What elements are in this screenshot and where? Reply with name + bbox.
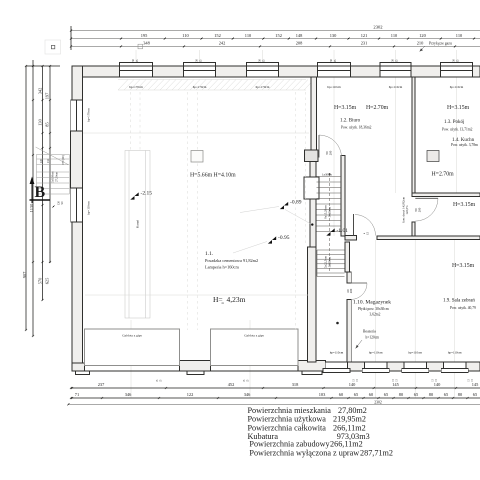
flag -0.89 [284,202,288,206]
kuchnia column [427,151,439,162]
svg-text:150: 150 [453,58,456,63]
svg-text:170 (90): 170 (90) [62,155,65,165]
ticks [67,387,468,406]
svg-text:2302: 2302 [373,25,383,30]
svg-text:Gablota z gips: Gablota z gips [244,334,264,338]
magazynek east wall [345,242,350,272]
axis marker square [45,40,61,54]
svg-text:287,71m2: 287,71m2 [360,449,393,458]
row B numbers [75,392,478,397]
hp labels bottom windows [330,351,462,355]
pokoj south wall [412,193,480,197]
svg-text:208: 208 [296,41,303,46]
faint centerline grid [131,50,457,398]
jamb bump / door sill [345,236,357,241]
top wall windows [120,63,473,78]
svg-text:H=3.15m: H=3.15m [334,105,357,111]
svg-text:210: 210 [417,41,424,46]
row A numbers [98,382,479,387]
stair east wall [341,156,345,237]
svg-text:197: 197 [45,92,50,99]
svg-text:200: 200 [329,150,333,155]
svg-text:346: 346 [125,392,132,397]
svg-text:242: 242 [219,41,226,46]
chimney duct [304,177,319,199]
svg-text:hp=110cm: hp=110cm [408,351,422,355]
svg-text:H=3.15m: H=3.15m [452,263,475,269]
svg-text:-0.89: -0.89 [290,200,302,206]
svg-text:130: 130 [38,118,43,125]
ticks row1 [70,30,475,48]
svg-text:1.10. Magazynek: 1.10. Magazynek [353,300,391,306]
left wall window/door stack [71,100,83,222]
column grid dashed projection lines [131,92,306,330]
svg-text:110: 110 [456,33,463,38]
column at corridor [305,150,319,162]
svg-text:Boazeria: Boazeria [363,330,376,334]
svg-text:120: 120 [419,33,426,38]
svg-text:H=2.70m: H=2.70m [432,172,455,178]
svg-text:237: 237 [98,382,105,387]
svg-text:346: 346 [244,392,251,397]
door swings [319,135,438,299]
svg-text:150: 150 [392,58,395,63]
flag -0.95 [272,236,276,240]
svg-text:hp=110cm: hp=110cm [450,85,464,89]
svg-text:-1.01: -1.01 [337,228,349,234]
upper flight steps [317,176,342,178]
stair annotations [322,150,422,293]
svg-text:110: 110 [245,33,252,38]
svg-text:625: 625 [45,277,50,284]
door jamb stub [412,222,415,240]
svg-text:907: 907 [22,271,27,278]
top dimension rows [70,25,480,52]
svg-text:130: 130 [330,33,337,38]
window size marks above top windows [132,58,460,63]
svg-text:148: 148 [296,33,303,38]
svg-text:122: 122 [187,392,194,397]
svg-text:110: 110 [391,33,398,38]
svg-text:150: 150 [259,58,262,63]
bottom sill bumps [76,371,90,375]
svg-text:hp=170cm: hp=170cm [256,85,270,89]
svg-text:Powierzchnia mieszkania: Powierzchnia mieszkania [248,406,332,415]
walk line [329,173,331,273]
top wall piers [72,66,120,77]
svg-text:hp=110cm: hp=110cm [389,85,403,89]
svg-text:H=5.66m H=4.10m: H=5.66m H=4.10m [190,173,236,179]
svg-text:hp=110cm: hp=110cm [369,351,383,355]
left wall size marks [62,155,65,165]
bottom wall band [72,365,480,372]
svg-text:2302: 2302 [374,401,382,405]
svg-text:Kanał: Kanał [136,220,140,228]
svg-text:Powierzchnia użytkowa: Powierzchnia użytkowa [248,415,327,424]
svg-text:B: B [35,184,46,201]
hp labels top windows [87,85,464,215]
row 2 numbers [143,41,424,46]
level flags [130,191,348,253]
svg-text:4,23m: 4,23m [227,295,246,304]
bottom area table [248,406,393,458]
svg-text:103: 103 [319,392,326,397]
svg-text:195: 195 [141,33,148,38]
svg-text:15: 15 [366,232,370,236]
svg-text:121: 121 [361,33,368,38]
svg-text:348: 348 [143,41,150,46]
svg-text:1.3. Pokój: 1.3. Pokój [444,120,464,125]
bottom dimension rows [67,379,480,406]
svg-text:1.1.: 1.1. [205,251,214,257]
svg-text:hp=170cm: hp=170cm [129,85,143,89]
svg-text:H=3.15m: H=3.15m [453,202,476,208]
row A wall-thickness stacks [156,379,474,383]
corridor west wall lower [310,162,316,248]
svg-text:110: 110 [182,33,189,38]
svg-text:1.9. Sala zebrań: 1.9. Sala zebrań [443,299,475,304]
room labels [62,58,478,354]
stairs [317,173,345,277]
svg-text:1x30cm: 1x30cm [322,173,332,177]
biuro door [318,135,320,158]
svg-text:Powierzchnia całkowita: Powierzchnia całkowita [248,423,327,432]
svg-text:318: 318 [292,382,299,387]
svg-text:150: 150 [132,58,135,63]
svg-text:150: 150 [196,58,199,63]
svg-text:200: 200 [349,288,353,293]
row 1 numbers [141,33,463,38]
flag -2.15 [135,192,139,196]
svg-text:-0.95: -0.95 [278,235,290,241]
pokoj door [415,197,438,199]
svg-text:152: 152 [275,33,282,38]
sala north wall [377,236,480,240]
svg-text:200: 200 [418,207,422,212]
exterior entry steps [36,147,70,194]
svg-text:1.2. Biuro: 1.2. Biuro [340,119,361,124]
bottom windows [323,362,468,373]
svg-text:hp=110cm: hp=110cm [327,85,341,89]
svg-text:Przyłącze gazu: Przyłącze gazu [429,42,452,46]
svg-text:150: 150 [330,58,333,63]
svg-text:1130: 1130 [29,203,34,212]
svg-text:71: 71 [75,392,79,397]
svg-text:5x8,90cm: 5x8,90cm [52,171,55,183]
biuro east wall [412,77,415,193]
hall column [191,151,203,163]
flag -1.01 [331,228,335,232]
walls [71,63,480,375]
svg-text:Powierzchnia zabudowy: Powierzchnia zabudowy [249,439,330,448]
svg-text:Płytki pow. 30x30cm: Płytki pow. 30x30cm [358,307,389,311]
kanal duct in hall [125,151,150,319]
svg-text:hp=110cm: hp=110cm [448,351,462,355]
magazynek door [351,282,368,284]
svg-text:Lamperia h=160cm: Lamperia h=160cm [205,265,239,270]
svg-text:219,95m2: 219,95m2 [333,415,366,424]
section mark B [30,177,51,204]
svg-text:H=3.15m: H=3.15m [447,105,470,111]
svg-text:27,50cm: 27,50cm [56,171,59,182]
svg-text:-2.15: -2.15 [141,191,153,197]
lower flight steps [317,249,345,251]
svg-text:231: 231 [361,41,368,46]
svg-text:hp=110cm: hp=110cm [330,351,344,355]
svg-text:452: 452 [228,382,235,387]
landing door [353,214,355,236]
svg-text:h=120cm: h=120cm [366,336,380,340]
ceiling hatch band in hall [118,80,314,91]
svg-text:Powierzchnia wyłączona z upraw: Powierzchnia wyłączona z upraw [249,449,359,458]
gablota display case left [85,329,299,365]
bottom wall piers [72,363,85,371]
svg-text:342: 342 [38,88,43,95]
svg-text:hp=170cm: hp=170cm [87,108,91,122]
svg-text:27,80m2: 27,80m2 [338,406,367,415]
left wall upper [72,66,83,100]
row2 axis square [138,44,143,49]
corridor west wall upper [311,77,317,150]
svg-text:H=2.70m: H=2.70m [366,105,389,111]
svg-text:570: 570 [38,277,43,284]
svg-text:152: 152 [214,33,221,38]
left dimension columns [22,60,64,337]
svg-text:hp=170cm: hp=170cm [193,85,207,89]
svg-text:266,11m2: 266,11m2 [333,423,366,432]
left wall lower [72,222,83,371]
svg-text:266,11m2: 266,11m2 [330,439,363,448]
svg-text:Gablota z gips: Gablota z gips [122,334,142,338]
svg-text:hp=110cm: hp=110cm [87,201,91,215]
